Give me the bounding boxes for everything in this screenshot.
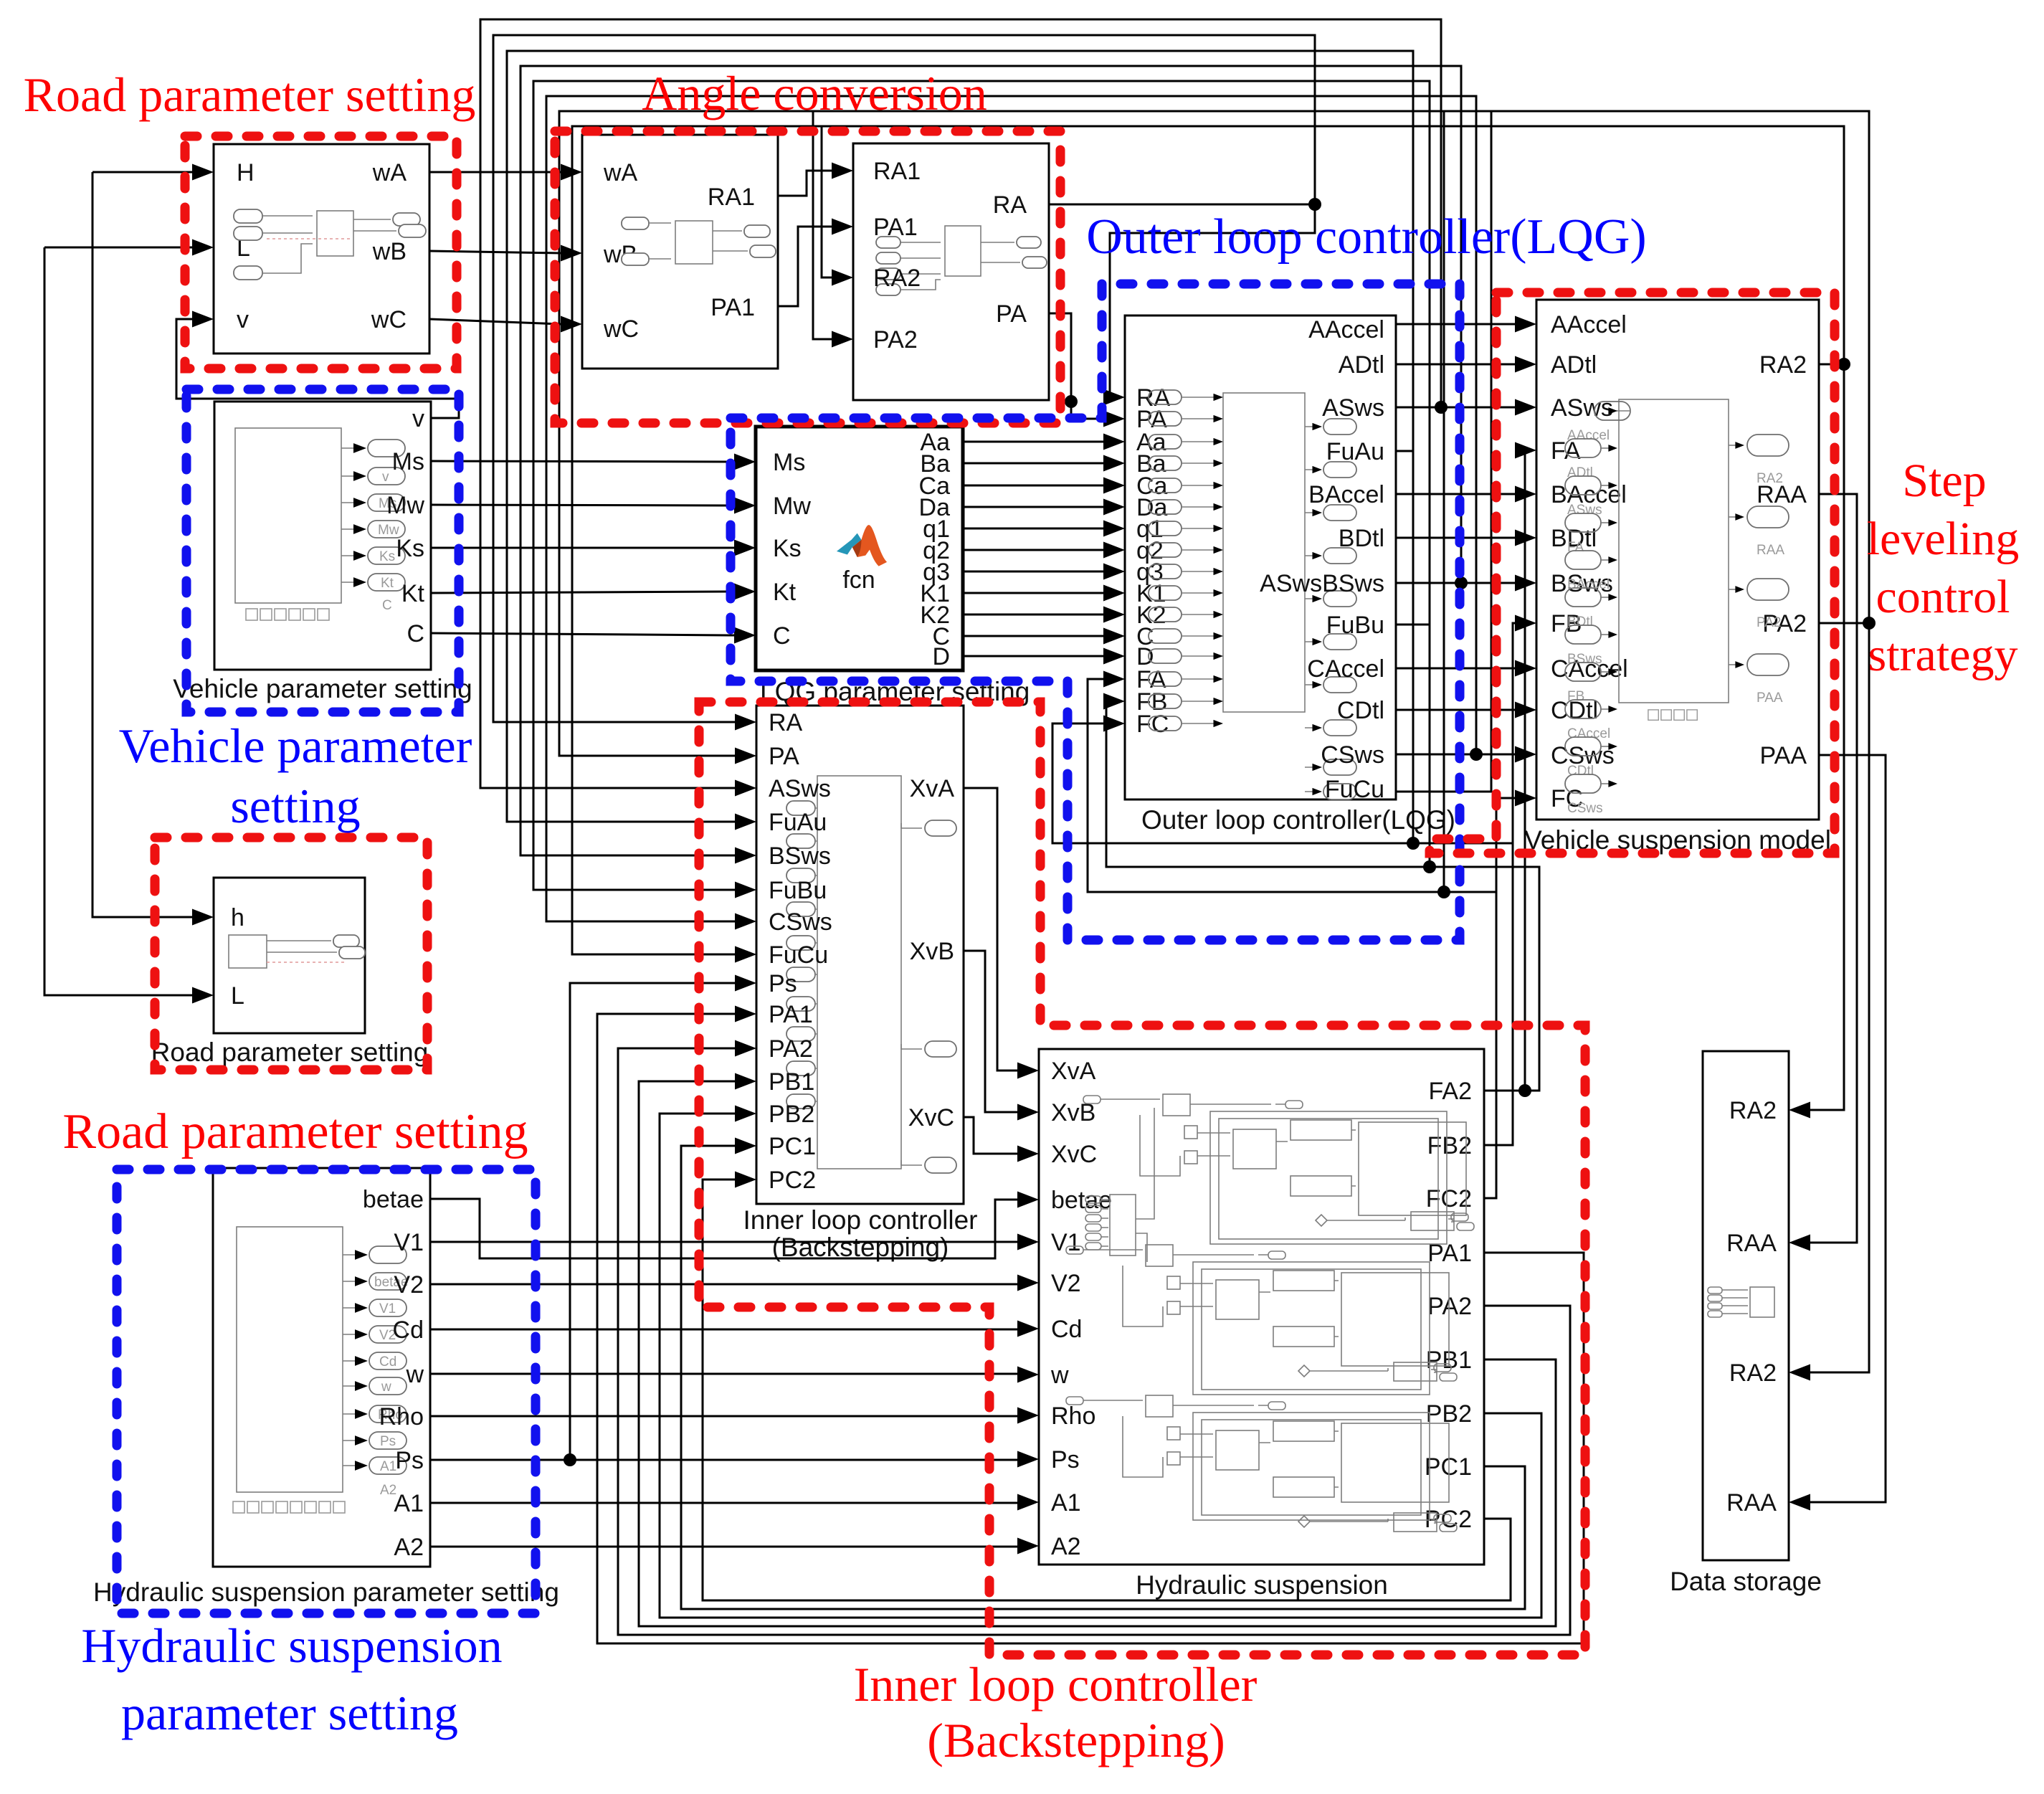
svg-text:FuAu: FuAu bbox=[769, 809, 827, 836]
svg-text:Road parameter setting: Road parameter setting bbox=[24, 67, 476, 122]
svg-text:Rho: Rho bbox=[1051, 1403, 1095, 1430]
svg-text:V2: V2 bbox=[394, 1271, 424, 1299]
svg-text:Kt: Kt bbox=[773, 579, 797, 606]
svg-text:XvA: XvA bbox=[1051, 1058, 1096, 1085]
svg-text:Ms: Ms bbox=[392, 448, 424, 475]
wire PA2 feedback from Hydraulic suspension to Inner loop PA2 bbox=[618, 1048, 1570, 1635]
svg-text:Ps: Ps bbox=[1051, 1446, 1080, 1473]
svg-text:RA1: RA1 bbox=[873, 158, 921, 185]
wire betae bbox=[430, 1199, 1017, 1258]
svg-text:w: w bbox=[405, 1361, 424, 1388]
wire FuAu feedback to Inner loop FuAu bbox=[507, 51, 1413, 843]
wire L into Road parameter generator and L into Road parameter setting 2 bbox=[44, 247, 192, 995]
svg-text:Vehicle parameter setting: Vehicle parameter setting bbox=[173, 674, 472, 703]
svg-text:L: L bbox=[231, 982, 244, 1010]
svg-text:Inner loop controller: Inner loop controller bbox=[854, 1657, 1258, 1712]
wire A1 bbox=[430, 1502, 1017, 1504]
svg-text:PB2: PB2 bbox=[769, 1101, 814, 1128]
svg-text:PA1: PA1 bbox=[710, 294, 755, 321]
red dashed box Step leveling control strategy bbox=[1430, 293, 1835, 853]
svg-text:CAccel: CAccel bbox=[1307, 655, 1384, 683]
svg-text:Cd: Cd bbox=[1051, 1316, 1082, 1343]
svg-text:Data storage: Data storage bbox=[1670, 1567, 1822, 1596]
svg-text:Rho: Rho bbox=[379, 1403, 424, 1430]
svg-text:PA2: PA2 bbox=[1757, 615, 1782, 630]
svg-text:BAccel: BAccel bbox=[1308, 481, 1384, 508]
svg-text:V1: V1 bbox=[394, 1229, 424, 1256]
svg-text:PC2: PC2 bbox=[1425, 1506, 1472, 1533]
block Angle conversion 1 bbox=[582, 135, 778, 369]
svg-text:Outer loop controller(LQG): Outer loop controller(LQG) bbox=[1141, 805, 1455, 835]
svg-text:RA2: RA2 bbox=[1729, 1097, 1777, 1124]
wire RA1 from Angle conversion 1 to Angle conversion 2 bbox=[778, 171, 832, 196]
svg-text:Hydraulic suspension parameter: Hydraulic suspension parameter setting bbox=[93, 1577, 559, 1607]
wire w bbox=[430, 1373, 1017, 1375]
wire FA2 from Hydraulic suspension up to Vehicle suspension FA and Outer loop FB bbox=[1103, 450, 1539, 1091]
svg-text:FA: FA bbox=[1567, 540, 1584, 555]
svg-text:FuBu: FuBu bbox=[769, 877, 827, 904]
svg-text:v: v bbox=[412, 405, 424, 432]
wire BAccel bbox=[1396, 493, 1515, 495]
svg-text:FA2: FA2 bbox=[1429, 1078, 1472, 1105]
svg-text:PA: PA bbox=[996, 300, 1027, 328]
svg-text:wA: wA bbox=[603, 159, 638, 186]
wire RA from Angle conversion 2 with junction, to Outer loop RA and feedback to Inner loop RA bbox=[493, 35, 1315, 722]
wire ASws with junction and feedback to Inner loop ASws bbox=[480, 19, 1515, 788]
svg-text:A2: A2 bbox=[394, 1534, 424, 1561]
svg-text:wB: wB bbox=[372, 238, 407, 265]
svg-text:AAccel: AAccel bbox=[1567, 428, 1610, 443]
svg-text:Kt: Kt bbox=[401, 580, 425, 607]
svg-text:PA2: PA2 bbox=[769, 1035, 813, 1063]
wire H into Road parameter generator and h into Road parameter setting 2 bbox=[92, 172, 192, 917]
junction FuBu riser on y1209 line bbox=[1423, 860, 1436, 873]
wire FB2 from Hydraulic suspension up to Vehicle suspension FB and Outer loop FC bbox=[1052, 623, 1515, 1145]
svg-text:Vehicle parameter: Vehicle parameter bbox=[119, 718, 472, 773]
svg-text:wC: wC bbox=[603, 315, 639, 343]
svg-text:Cd: Cd bbox=[393, 1316, 424, 1344]
svg-text:RA2: RA2 bbox=[1729, 1359, 1777, 1387]
svg-text:wA: wA bbox=[372, 159, 407, 186]
svg-text:Ps: Ps bbox=[395, 1447, 424, 1474]
svg-text:PC1: PC1 bbox=[769, 1133, 816, 1160]
wire FuCu feedback to Inner loop FuCu bbox=[1396, 111, 1491, 892]
svg-text:RAA: RAA bbox=[1757, 543, 1784, 558]
svg-text:Road parameter setting: Road parameter setting bbox=[62, 1104, 528, 1159]
svg-text:Mw: Mw bbox=[773, 493, 811, 520]
svg-text:Hydraulic suspension: Hydraulic suspension bbox=[1136, 1570, 1388, 1600]
svg-text:v: v bbox=[382, 470, 389, 485]
svg-text:PAA: PAA bbox=[1757, 690, 1783, 706]
svg-text:A1: A1 bbox=[1051, 1489, 1081, 1517]
svg-text:(Backstepping): (Backstepping) bbox=[927, 1713, 1225, 1767]
svg-text:RA: RA bbox=[769, 709, 803, 736]
wire wC bbox=[429, 319, 561, 324]
svg-text:XvC: XvC bbox=[1051, 1141, 1097, 1168]
svg-text:ASws: ASws bbox=[1551, 394, 1613, 422]
svg-text:C: C bbox=[773, 622, 791, 650]
svg-text:Hydraulic suspension: Hydraulic suspension bbox=[81, 1618, 502, 1673]
svg-text:H: H bbox=[237, 159, 255, 186]
svg-text:RA: RA bbox=[993, 191, 1027, 219]
svg-text:CAccel: CAccel bbox=[1567, 726, 1610, 741]
svg-text:XvA: XvA bbox=[910, 775, 955, 802]
wire C bbox=[431, 633, 734, 635]
svg-text:A1: A1 bbox=[380, 1459, 396, 1474]
hydraulic demux bbox=[1085, 1108, 1154, 1262]
svg-text:Ks: Ks bbox=[396, 535, 424, 562]
svg-text:FC: FC bbox=[1136, 711, 1169, 738]
wire V1 bbox=[430, 1241, 1017, 1243]
red dashed box Angle conversion bbox=[555, 131, 1060, 423]
svg-text:A1: A1 bbox=[394, 1490, 424, 1517]
svg-text:RAA: RAA bbox=[1726, 1489, 1777, 1517]
svg-text:C: C bbox=[407, 620, 424, 647]
svg-text:Road parameter setting: Road parameter setting bbox=[151, 1038, 429, 1067]
wire PA1 feedback from Hydraulic suspension to Inner loop PA1 bbox=[597, 1014, 1584, 1643]
svg-text:AAccel: AAccel bbox=[1308, 316, 1384, 343]
wire PAA from Vehicle suspension model to Data storage bbox=[1810, 755, 1886, 1502]
wire XvB bbox=[964, 951, 1017, 1112]
svg-text:Ks: Ks bbox=[379, 549, 395, 564]
svg-text:w: w bbox=[1050, 1362, 1069, 1389]
blue dashed box Hydraulic suspension parameter setting bbox=[117, 1169, 536, 1613]
svg-text:CSws: CSws bbox=[769, 908, 832, 936]
wire RAA from Vehicle suspension model to Data storage bbox=[1810, 494, 1857, 1243]
svg-text:CSws: CSws bbox=[1321, 741, 1384, 769]
svg-text:control: control bbox=[1876, 571, 2010, 623]
svg-text:Inner loop controller: Inner loop controller bbox=[743, 1205, 977, 1235]
svg-text:betae: betae bbox=[1051, 1187, 1112, 1214]
block Vehicle suspension model bbox=[1536, 300, 1819, 820]
svg-text:C: C bbox=[382, 598, 392, 613]
svg-text:h: h bbox=[231, 904, 244, 931]
svg-text:CDtl: CDtl bbox=[1567, 764, 1594, 779]
wire CSws with junction and feedback to Inner loop CSws bbox=[546, 96, 1515, 921]
wire PB2 feedback from Hydraulic suspension to Inner loop PB2 bbox=[660, 1114, 1541, 1618]
wire XvA bbox=[964, 788, 1017, 1071]
wire PA1 from Angle conversion 1 to Angle conversion 2 bbox=[778, 227, 832, 306]
svg-text:Cd: Cd bbox=[379, 1354, 396, 1370]
svg-text:ADtl: ADtl bbox=[1567, 465, 1593, 480]
wire V2 bbox=[430, 1283, 1017, 1286]
svg-text:PA1: PA1 bbox=[769, 1001, 813, 1028]
wire Ps with junction up to Inner loop Ps bbox=[430, 983, 1017, 1460]
svg-text:FuAu: FuAu bbox=[1326, 438, 1384, 465]
wire FuBu feedback to Inner loop FuBu bbox=[533, 81, 1430, 890]
svg-text:PA2: PA2 bbox=[1427, 1293, 1472, 1320]
wire CDtl bbox=[1396, 709, 1515, 711]
wire PA from Angle conversion 2 to Outer loop PA and feedback to Inner loop PA bbox=[1049, 313, 1103, 419]
wire PC2 feedback from Hydraulic suspension to Inner loop PC2 bbox=[703, 1180, 1511, 1600]
MATLAB logo bbox=[837, 525, 887, 566]
svg-text:strategy: strategy bbox=[1868, 629, 2018, 681]
wire Cd bbox=[430, 1329, 1017, 1331]
svg-text:XvC: XvC bbox=[908, 1104, 954, 1131]
svg-text:V2: V2 bbox=[1051, 1270, 1081, 1297]
svg-text:RAA: RAA bbox=[1726, 1230, 1777, 1257]
svg-text:PC1: PC1 bbox=[1425, 1453, 1472, 1481]
block Hydraulic suspension bbox=[1039, 1049, 1484, 1600]
svg-text:FuBu: FuBu bbox=[1326, 612, 1384, 639]
svg-text:Ps: Ps bbox=[380, 1434, 396, 1449]
wire Ms bbox=[431, 461, 734, 462]
wire Mw bbox=[431, 505, 734, 506]
block Outer loop controller (LQG) bbox=[1125, 315, 1455, 835]
blue dashed box Outer loop controller (LQG) step polygon bbox=[731, 284, 1460, 940]
svg-text:ADtl: ADtl bbox=[1339, 351, 1384, 379]
svg-text:RA2: RA2 bbox=[1759, 351, 1807, 379]
svg-text:setting: setting bbox=[230, 779, 360, 833]
svg-text:ASws: ASws bbox=[769, 775, 831, 802]
block Data storage bbox=[1670, 1051, 1822, 1596]
wire CAccel bbox=[1396, 668, 1515, 670]
svg-text:Mw: Mw bbox=[386, 492, 424, 519]
svg-text:leveling: leveling bbox=[1867, 513, 2020, 565]
svg-text:FB2: FB2 bbox=[1427, 1132, 1472, 1159]
svg-text:Ks: Ks bbox=[773, 535, 802, 562]
svg-text:PB1: PB1 bbox=[769, 1068, 814, 1096]
block LQG parameter setting (MATLAB fcn) bbox=[756, 427, 1030, 706]
svg-text:V1: V1 bbox=[379, 1301, 396, 1316]
wire wA bbox=[429, 171, 561, 174]
wire PC1 feedback from Hydraulic suspension to Inner loop PC1 bbox=[681, 1146, 1525, 1609]
svg-text:A2: A2 bbox=[1051, 1533, 1081, 1560]
wires Aa Ba Ca Da q1 q2 q3 K1 K2 C D from LQG parameter setting to Outer loop controller bbox=[963, 442, 1103, 656]
svg-text:PA2: PA2 bbox=[873, 326, 918, 353]
block Vehicle parameter setting bbox=[173, 402, 472, 703]
wire RA2 feedback from Vehicle suspension model to Angle conversion 2 and Data storage bbox=[572, 126, 1844, 1110]
svg-text:PA1: PA1 bbox=[873, 214, 918, 241]
block Road parameter generator (top) bbox=[214, 144, 429, 353]
svg-text:Ms: Ms bbox=[773, 449, 805, 476]
wire ASwsBSws with junction and feedback to Inner loop BSws bbox=[520, 66, 1515, 855]
block Hydraulic suspension parameter setting bbox=[93, 1168, 559, 1607]
svg-text:PA: PA bbox=[769, 743, 799, 770]
block Angle conversion 2 bbox=[853, 143, 1049, 400]
svg-text:Ps: Ps bbox=[769, 970, 797, 997]
svg-text:CSws: CSws bbox=[1567, 801, 1603, 816]
svg-text:FB: FB bbox=[1567, 689, 1584, 704]
wire Ks bbox=[431, 547, 734, 549]
block Inner loop controller (Backstepping) bbox=[743, 706, 977, 1262]
wire wB bbox=[429, 251, 561, 253]
wire PB1 feedback from Hydraulic suspension to Inner loop PB1 bbox=[639, 1081, 1556, 1626]
svg-text:betae: betae bbox=[363, 1186, 424, 1213]
vehicle suspension model inner ovals bbox=[1524, 402, 1831, 855]
wire FC2 from Hydraulic suspension up to Vehicle suspension FC and Outer loop FA bbox=[1088, 679, 1515, 1198]
wire AAccel bbox=[1396, 323, 1515, 326]
svg-text:D: D bbox=[932, 643, 950, 670]
svg-text:fcn: fcn bbox=[842, 566, 875, 594]
svg-text:RA2: RA2 bbox=[1757, 471, 1783, 486]
svg-text:FuCu: FuCu bbox=[769, 941, 828, 969]
svg-text:BDtl: BDtl bbox=[1339, 525, 1384, 552]
wire XvC bbox=[964, 1117, 1017, 1154]
svg-text:BSws: BSws bbox=[769, 843, 831, 870]
svg-text:CDtl: CDtl bbox=[1337, 697, 1384, 724]
svg-text:XvB: XvB bbox=[910, 938, 954, 965]
svg-text:RA2: RA2 bbox=[873, 265, 921, 292]
wire Rho bbox=[430, 1415, 1017, 1418]
svg-text:Angle conversion: Angle conversion bbox=[642, 66, 987, 120]
svg-text:Kt: Kt bbox=[381, 576, 394, 591]
hydraulic inner circuit A bbox=[1083, 1094, 1474, 1244]
blue dashed box Vehicle parameter setting bbox=[186, 389, 459, 712]
wire ADtl bbox=[1396, 364, 1515, 366]
svg-text:Step: Step bbox=[1902, 455, 1986, 507]
wire Kt bbox=[431, 592, 734, 593]
svg-text:wC: wC bbox=[371, 306, 407, 333]
svg-text:PC2: PC2 bbox=[769, 1167, 816, 1194]
svg-text:ADtl: ADtl bbox=[1551, 351, 1597, 379]
svg-text:v: v bbox=[237, 306, 249, 333]
hydraulic inner circuit C bbox=[1066, 1395, 1457, 1532]
svg-text:RA1: RA1 bbox=[708, 184, 755, 211]
svg-text:AAccel: AAccel bbox=[1551, 311, 1627, 338]
svg-text:BDtl: BDtl bbox=[1567, 614, 1593, 630]
red dashed box Inner loop controller (Backstepping) step polygon bbox=[699, 702, 1585, 1655]
svg-text:PAA: PAA bbox=[1759, 742, 1807, 769]
svg-text:BAccel: BAccel bbox=[1567, 577, 1610, 592]
hydraulic inner circuit B bbox=[1066, 1245, 1457, 1395]
svg-text:w: w bbox=[381, 1380, 391, 1395]
wire A2 bbox=[430, 1546, 1017, 1548]
red dashed box Road parameter setting (top) bbox=[185, 136, 457, 369]
wire BDtl bbox=[1396, 537, 1515, 539]
svg-text:Outer loop controller(LQG): Outer loop controller(LQG) bbox=[1086, 209, 1646, 265]
block Road parameter setting (second) bbox=[151, 878, 429, 1067]
svg-text:ASwsBSws: ASwsBSws bbox=[1260, 570, 1384, 597]
wire v from Vehicle parameter setting to Road parameter generator bbox=[176, 319, 459, 418]
wire PA2 feedback from Vehicle suspension model to Angle conversion 2 and Data storage bbox=[559, 111, 1869, 1372]
svg-text:parameter setting: parameter setting bbox=[121, 1686, 458, 1740]
svg-text:FuCu: FuCu bbox=[1325, 776, 1384, 803]
svg-text:FC2: FC2 bbox=[1426, 1185, 1472, 1212]
svg-text:ASws: ASws bbox=[1322, 394, 1384, 422]
red dashed box Road parameter setting (second) bbox=[155, 837, 427, 1070]
